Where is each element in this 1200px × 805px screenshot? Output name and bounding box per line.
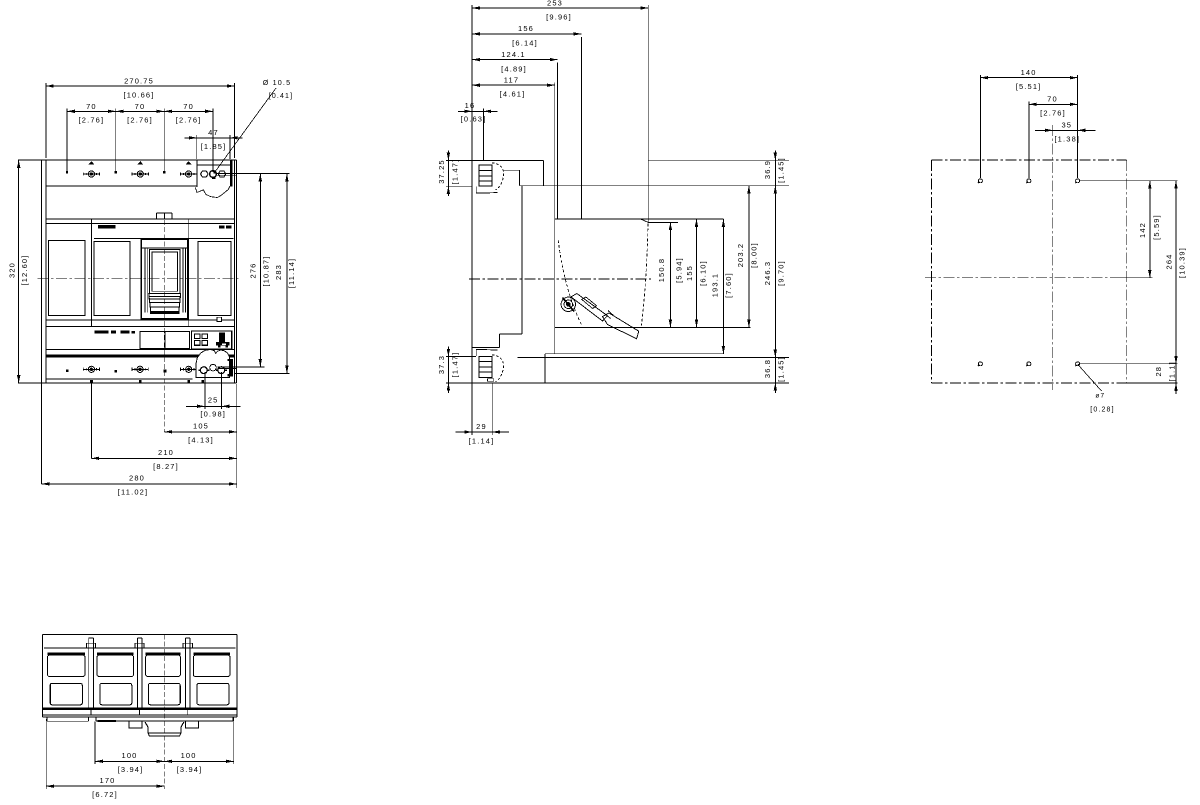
dimension 36.9 [1.45] <box>763 150 786 195</box>
dimension 170 [6.72] <box>46 719 164 799</box>
dimension 16 [0.63] <box>458 101 497 160</box>
svg-text:Ø 10.5: Ø 10.5 <box>263 78 291 87</box>
rear view: mounting hole top-left <box>978 179 983 183</box>
svg-text:[2.76]: [2.76] <box>127 116 153 125</box>
svg-text:100: 100 <box>122 751 138 760</box>
side view: rear edge <box>647 5 649 222</box>
leader: dia 10.5 hole callout <box>214 78 294 173</box>
svg-text:[9.70]: [9.70] <box>776 260 785 286</box>
dimension 25 [0.98] terminal hole pitch <box>186 372 241 419</box>
detail: bottom terminal screw left <box>198 367 209 374</box>
front view: faceplate window pole 2 <box>94 242 130 316</box>
svg-text:170: 170 <box>100 776 116 785</box>
svg-text:156: 156 <box>518 24 534 33</box>
front view: accessory strip terminal marks <box>95 331 136 334</box>
svg-text:[0.98]: [0.98] <box>200 410 226 419</box>
dimension 270.75 [10.66] overall width <box>46 77 235 159</box>
dimension 280 [11.02] overall width bottom <box>42 384 237 497</box>
side view: front face line <box>471 5 473 383</box>
svg-text:270.75: 270.75 <box>124 77 154 86</box>
dimension 70 [2.76] pole pitch 2 <box>116 102 164 171</box>
dimension 150.8 [5.94] <box>657 222 684 327</box>
svg-text:[1.45]: [1.45] <box>776 356 785 382</box>
svg-text:[3.94]: [3.94] <box>118 765 144 774</box>
detail: top terminal zoom box <box>197 160 232 187</box>
svg-text:[4.13]: [4.13] <box>188 436 214 445</box>
side view: recess bottom line <box>555 326 751 328</box>
svg-text:203.2: 203.2 <box>736 243 745 268</box>
svg-text:[6.10]: [6.10] <box>699 260 708 286</box>
front view: bottom terminal screw pole 2 <box>132 366 148 372</box>
front view: molded case outer outline <box>18 160 237 383</box>
side view: bottom clamp cable circle (dashed) <box>492 355 504 382</box>
svg-text:[2.76]: [2.76] <box>176 116 202 125</box>
front view: faceplate window pole 4 <box>198 242 231 316</box>
svg-text:105: 105 <box>193 422 209 431</box>
svg-text:70: 70 <box>135 102 146 111</box>
dimension 142 [5.59] <box>1138 181 1161 278</box>
front view: pole centre reference ticks <box>66 171 165 173</box>
dimension 117 [4.61] <box>472 76 555 99</box>
dimension 28 [1.1] <box>1154 353 1178 394</box>
dimension 253 [9.96] depth <box>472 0 648 22</box>
svg-text:253: 253 <box>547 0 563 8</box>
dimension 140 [5.51] hole pitch <box>980 68 1077 178</box>
dimension 47 [1.85] terminal width <box>184 128 242 159</box>
svg-text:[11.02]: [11.02] <box>118 488 148 497</box>
svg-text:[0.28]: [0.28] <box>1090 407 1114 414</box>
front view: accessory plug symbol <box>216 333 230 348</box>
detail: hole centre extension lines <box>216 174 289 176</box>
svg-text:[4.61]: [4.61] <box>500 90 526 99</box>
front view: top terminal screw pole 3 <box>180 171 196 177</box>
dimension 283 [11.14] height over terminals <box>274 174 296 374</box>
svg-text:[1.1]: [1.1] <box>1167 361 1176 381</box>
detail: bottom hole centre <box>210 364 217 371</box>
dimension 155 [6.10] <box>685 219 708 327</box>
side view: case top edge <box>446 159 789 161</box>
dimension 100 [3.94] right <box>164 717 233 774</box>
svg-text:264: 264 <box>1165 254 1174 270</box>
front view: bottom pole labels <box>66 369 167 372</box>
dimension 105 [4.13] <box>164 384 236 488</box>
front view: bottom terminal thick band <box>46 354 235 357</box>
front view: top terminal screw pole 2 <box>132 171 148 177</box>
side view: rotary handle hub <box>561 297 575 311</box>
front view: bottom strip inner line <box>46 378 193 380</box>
bottom view: base band <box>43 708 237 717</box>
front view: handle surround inner lines <box>141 248 188 313</box>
bottom view: upper cavity pole 3 <box>146 652 181 676</box>
front view: faceplate pole divider right <box>188 219 190 327</box>
rear view: right extension lines <box>1080 181 1178 383</box>
svg-text:246.3: 246.3 <box>763 261 772 286</box>
svg-text:[10.87]: [10.87] <box>262 256 271 287</box>
dimension 36.8 [1.45] <box>763 347 786 392</box>
svg-text:[0.41]: [0.41] <box>269 93 293 100</box>
dimension 193.1 [7.60] <box>711 219 734 354</box>
side view: top clamp hook <box>476 186 497 193</box>
svg-text:37.3: 37.3 <box>437 355 446 374</box>
svg-text:150.8: 150.8 <box>657 258 666 283</box>
side view: bottom clamp body <box>479 356 492 377</box>
front view: bottom terminal screw pole 3 <box>181 366 197 372</box>
front view: bottom terminal screw pole 1 <box>83 366 99 372</box>
dimension 203.2 [8.00] <box>736 186 758 328</box>
dimension 70 [2.76] hole pitch <box>1029 95 1078 179</box>
rear view: mounting hole bottom-centre <box>1026 362 1031 366</box>
svg-text:[1.47]: [1.47] <box>451 159 460 185</box>
dimension 100 [3.94] left <box>95 722 164 774</box>
dimension 70 [2.76] pole pitch 1 <box>67 102 116 171</box>
dimension 210 [8.27] mounting hole pitch <box>91 384 236 472</box>
dimension 70 [2.76] pole pitch 3 <box>164 102 213 172</box>
leader: dia 7 hole callout <box>1078 364 1115 413</box>
svg-text:70: 70 <box>183 102 194 111</box>
svg-text:[6.14]: [6.14] <box>512 39 538 48</box>
side view: rotary handle shaft <box>571 294 607 322</box>
detail: top terminal hex nut left <box>201 171 208 177</box>
side view: base step line <box>472 347 499 349</box>
dimension 35 [1.38] <box>1035 120 1096 143</box>
detail: break line (freehand) <box>195 186 230 197</box>
side view: bottom clamp hook <box>476 349 497 381</box>
front view: terminal triangle marks <box>88 161 191 164</box>
svg-text:[1.45]: [1.45] <box>776 157 785 183</box>
detail: bottom terminal screw right <box>216 367 227 374</box>
front view: faceplate horizontal lines <box>46 219 235 327</box>
front view: handle surround outer <box>141 239 188 319</box>
side view: top surface line <box>520 185 790 187</box>
bottom view: lower cavity pole 3 <box>148 683 180 705</box>
rear view: vertical centreline <box>1052 125 1054 390</box>
bottom view: body outline <box>43 635 237 717</box>
side view: recess curve left (dashed swing arc) <box>558 240 582 325</box>
svg-text:ø7: ø7 <box>1095 393 1105 400</box>
dimension 29 [1.14] <box>456 384 509 446</box>
front view: handle grip <box>149 294 181 313</box>
svg-text:100: 100 <box>181 751 197 760</box>
side view: recess curve right (dashed swing arc) <box>641 224 648 327</box>
front view: accessory strip right box <box>191 331 231 349</box>
svg-text:[0.63]: [0.63] <box>461 115 487 124</box>
dimension 156 [6.14] <box>472 24 581 48</box>
svg-text:28: 28 <box>1154 366 1163 377</box>
svg-text:[7.60]: [7.60] <box>724 272 733 298</box>
side view: handle recess top <box>555 219 724 222</box>
svg-text:[1.14]: [1.14] <box>469 437 495 446</box>
side view: top clamp cable circle (dashed) <box>492 163 504 190</box>
bottom view: lower cavity pole 4 <box>197 683 229 705</box>
svg-text:36.9: 36.9 <box>763 160 772 179</box>
bottom view: pole divider 3 <box>183 638 192 709</box>
side view: top ref extension <box>648 221 678 223</box>
svg-text:[8.00]: [8.00] <box>749 242 758 268</box>
side view: top clamp body <box>479 165 492 186</box>
svg-text:[10.66]: [10.66] <box>124 91 155 100</box>
side view: recess inner edge <box>557 63 559 220</box>
side view: base corner <box>544 354 546 383</box>
svg-text:[11.14]: [11.14] <box>287 258 296 288</box>
svg-text:117: 117 <box>504 76 519 85</box>
front view: faceplate pole divider left <box>90 219 92 327</box>
detail: bottom clamp bracket <box>228 359 233 377</box>
svg-text:320: 320 <box>8 262 17 278</box>
dimension 37.25 [1.47] top terminal height <box>437 150 472 196</box>
svg-text:36.8: 36.8 <box>763 359 772 378</box>
dimension 320 [12.60] overall height <box>8 160 46 383</box>
svg-text:[2.76]: [2.76] <box>79 116 105 125</box>
svg-text:35: 35 <box>1061 120 1072 129</box>
bottom view: lower cavity pole 1 <box>50 683 82 705</box>
svg-text:[10.39]: [10.39] <box>1178 247 1187 278</box>
dimension 124.1 [4.89] <box>472 50 557 74</box>
rear view: horizontal centreline <box>925 277 1128 279</box>
bottom view: upper cavity pole 2 <box>97 652 134 676</box>
bottom view: left mounting tab <box>47 717 89 721</box>
svg-text:16: 16 <box>465 101 476 110</box>
svg-text:[1.47]: [1.47] <box>451 352 460 378</box>
front view: bottom terminal lug marks <box>90 380 204 383</box>
dimension 264 [10.39] <box>1165 181 1187 364</box>
svg-text:[5.94]: [5.94] <box>675 257 684 283</box>
bottom view: upper cavity pole 4 <box>193 652 230 676</box>
bottom view: DIN rail latch <box>129 721 199 736</box>
svg-text:193.1: 193.1 <box>711 273 720 298</box>
svg-text:[5.59]: [5.59] <box>1152 214 1161 240</box>
rear view: mounting plate phantom outline <box>931 160 1126 383</box>
front view: type label 3VL <box>219 225 232 228</box>
svg-text:140: 140 <box>1021 68 1037 77</box>
svg-text:70: 70 <box>86 102 97 111</box>
side view: top cover step <box>503 170 520 186</box>
front view: test button square <box>217 317 222 321</box>
detail: mounting hole dia 10.5 <box>210 171 217 179</box>
side view: lower cover step <box>499 334 522 348</box>
svg-text:47: 47 <box>208 128 219 137</box>
svg-text:[2.76]: [2.76] <box>1040 109 1066 118</box>
side view: horizontal centreline <box>469 278 651 280</box>
svg-text:276: 276 <box>249 263 258 279</box>
dimension 37.3 [1.47] bottom terminal height <box>437 347 476 393</box>
svg-text:[5.51]: [5.51] <box>1016 82 1042 91</box>
front view: top terminal strip bottom line <box>46 185 197 187</box>
rear view: mounting hole bottom-left <box>978 362 983 366</box>
detail: bottom terminal zoom outline (freehand) <box>196 350 230 378</box>
side view: top rear corner <box>543 160 545 185</box>
side view: cover step edge <box>580 37 582 219</box>
front view: accessory strip bottom line <box>46 349 235 351</box>
front view: accessory indicator squares <box>195 334 208 345</box>
dimension 276 [10.87] hole pitch height <box>249 174 271 367</box>
svg-text:[12.60]: [12.60] <box>20 255 29 286</box>
rear view: mounting hole bottom-right <box>1075 362 1080 366</box>
svg-text:25: 25 <box>208 396 219 405</box>
side view: cover front edge <box>521 186 523 334</box>
detail: bottom extension lines <box>217 367 289 373</box>
side view: rail line <box>545 353 723 355</box>
bottom view: pole divider 1 <box>86 638 95 709</box>
svg-text:[4.89]: [4.89] <box>501 65 527 74</box>
side view: bottom edge <box>446 382 789 384</box>
front view: toggle handle <box>149 249 180 293</box>
front view: faceplate window left column <box>48 241 85 316</box>
side view: base bottom step <box>518 356 790 358</box>
svg-text:155: 155 <box>685 265 694 281</box>
side view: recess left edge <box>554 82 556 353</box>
dimension 246.3 [9.70] <box>763 186 786 358</box>
svg-text:124.1: 124.1 <box>501 50 526 59</box>
svg-text:[1.38]: [1.38] <box>1054 134 1080 143</box>
bottom view: pole divider 2 <box>135 638 144 709</box>
svg-text:[6.72]: [6.72] <box>92 790 118 799</box>
bottom view: inner top line <box>44 647 236 649</box>
front view: accessory strip centre box <box>140 332 190 349</box>
detail: top terminal hex nut right <box>218 171 225 177</box>
svg-text:29: 29 <box>476 422 487 431</box>
rear view: mounting hole top-centre <box>1026 179 1031 183</box>
front view: vertical dashed centreline <box>163 213 165 432</box>
rear view: mounting hole top-right <box>1075 179 1080 183</box>
front view: top accessory tab <box>157 213 173 219</box>
svg-text:[3.94]: [3.94] <box>177 765 203 774</box>
svg-text:142: 142 <box>1138 222 1147 238</box>
bottom view: lower cavity pole 2 <box>100 683 132 705</box>
side view: rotary handle grip <box>603 311 639 339</box>
bottom view: upper cavity pole 1 <box>47 652 85 676</box>
svg-text:37.25: 37.25 <box>437 159 446 184</box>
svg-text:[1.85]: [1.85] <box>201 142 227 151</box>
front view: top terminal screw pole 1 <box>83 171 99 177</box>
svg-text:283: 283 <box>274 264 283 280</box>
front view: SIEMENS label bar <box>98 225 116 229</box>
svg-text:280: 280 <box>129 474 145 483</box>
front view: horizontal centreline <box>38 278 242 280</box>
bottom view: vertical dashed centreline <box>163 635 165 790</box>
svg-text:[8.27]: [8.27] <box>153 462 179 471</box>
bottom view: centre mounting tab <box>96 717 233 722</box>
svg-text:[9.96]: [9.96] <box>546 13 572 22</box>
svg-text:210: 210 <box>158 448 174 457</box>
svg-text:70: 70 <box>1047 95 1058 104</box>
